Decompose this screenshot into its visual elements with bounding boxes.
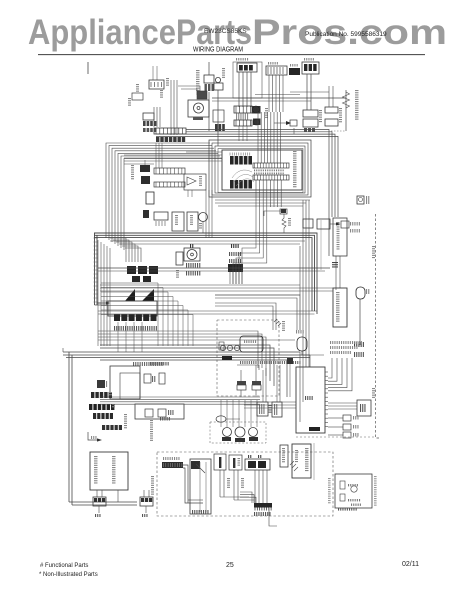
wire pair xyxy=(154,107,160,127)
header strip CN4 xyxy=(253,175,289,180)
relay K2 xyxy=(197,91,207,99)
defrost thermostat S6 xyxy=(140,160,150,172)
wire bus y331 xyxy=(98,331,295,376)
wire arrow into housing xyxy=(98,302,110,305)
connector blob xyxy=(97,380,107,388)
connector row B xyxy=(91,392,112,398)
switch S2 xyxy=(132,93,143,100)
wire elbows right mid xyxy=(215,295,300,330)
wire: top bus b xyxy=(212,100,311,102)
wire elbows in icemaker xyxy=(237,365,259,381)
ice dispenser box xyxy=(292,444,311,478)
wire staircase lower xyxy=(101,283,193,346)
switch S1 xyxy=(149,80,164,89)
wire bundle below flag xyxy=(188,190,212,238)
node: stub comp xyxy=(287,358,293,397)
wire: mid bus right drop xyxy=(300,200,321,402)
wire staircase center down xyxy=(233,207,267,284)
ground arrow xyxy=(88,432,102,442)
svg-text:WIRING DIAGRAM: WIRING DIAGRAM xyxy=(193,47,243,54)
wire bus y345 xyxy=(63,345,310,422)
wire rows into board xyxy=(124,155,186,164)
connector row C xyxy=(89,404,115,410)
wire: top bus a xyxy=(212,97,346,99)
boundary: dash vline xyxy=(313,443,315,480)
node: title WIRING DIAGRAM xyxy=(193,47,243,54)
wire bundle: upper bus xyxy=(156,130,338,257)
svg-text:02/11: 02/11 xyxy=(402,561,419,568)
connector housing xyxy=(108,301,157,316)
flag component K6 xyxy=(184,174,206,190)
wire ladder left xyxy=(94,233,109,305)
wire drops to motors xyxy=(221,400,257,427)
switch S4 door xyxy=(332,218,347,268)
node: date 02/11 xyxy=(402,561,419,568)
arc traces xyxy=(232,170,254,186)
node: model number text xyxy=(204,28,247,35)
header strip CN3 xyxy=(253,163,289,168)
inline connector J8 xyxy=(257,368,268,416)
wire wrap bottom extension xyxy=(215,200,310,206)
ice motor housing xyxy=(240,336,263,352)
node: page number 25 xyxy=(226,562,234,569)
wire elbow up xyxy=(264,209,286,216)
node marks xyxy=(176,270,179,278)
boundary: dashed housing circles xyxy=(210,422,266,443)
wire bundle into board left xyxy=(186,152,222,161)
node: disp labels top xyxy=(330,341,362,354)
pin row 2 xyxy=(114,322,157,352)
connector stub 3 xyxy=(328,432,359,438)
sensor RT2 capsule xyxy=(356,287,369,299)
lamp L1 xyxy=(172,212,184,231)
relay K3 xyxy=(213,110,225,131)
connector row E xyxy=(102,425,122,430)
wire bus y355 dark xyxy=(150,356,301,366)
node: publication number text xyxy=(305,31,387,38)
pin hatches xyxy=(254,170,284,175)
sensor capsule C3 xyxy=(296,330,324,355)
node: water label xyxy=(274,319,285,331)
motor M4 xyxy=(222,428,232,442)
housing B xyxy=(135,404,184,419)
wire drop from J6 xyxy=(230,272,242,284)
svg-text:Appliance: Appliance xyxy=(28,13,176,52)
wire verticals lower left xyxy=(98,240,110,346)
wire elbow bottom xyxy=(220,497,254,500)
ice switch symbols xyxy=(219,342,240,351)
wire wrap around board xyxy=(209,140,311,197)
wire bundle: nested elbows left xyxy=(106,143,222,250)
wire bundle from J1 xyxy=(239,72,251,107)
wire: stub at left xyxy=(87,62,89,74)
switch S5 door xyxy=(333,288,347,327)
valve V1 xyxy=(237,381,246,397)
boundary: ice water dashed box xyxy=(157,452,333,516)
terminal strip TB1 xyxy=(154,128,186,142)
connector stub 2 xyxy=(328,424,359,430)
pin row dark xyxy=(114,314,157,321)
wire elbow down xyxy=(183,465,203,503)
wire bus y268 xyxy=(98,268,330,271)
node: label 486 xyxy=(231,244,239,248)
connector J5 xyxy=(154,212,168,226)
wire bundle into CN3 xyxy=(258,112,280,163)
water valve housing xyxy=(90,452,128,490)
connector row D xyxy=(93,413,113,419)
motor M3 xyxy=(184,248,200,261)
svg-text:EW23CS85KS: EW23CS85KS xyxy=(204,28,247,35)
switch box B xyxy=(229,455,242,470)
wire elbows to relay xyxy=(178,86,200,95)
node: run arrow xyxy=(265,108,297,134)
thermostat S3 xyxy=(143,192,154,218)
connector P2 dark xyxy=(132,276,151,282)
fuse F2 xyxy=(214,68,225,146)
terminal strip TB2 xyxy=(234,106,252,126)
thermistor RT1 xyxy=(280,209,291,233)
relay K4 xyxy=(303,110,322,132)
wire drop J2 xyxy=(269,75,283,112)
boundary: door dashed xyxy=(376,214,382,438)
node: footer non-illustrated parts xyxy=(39,572,98,578)
node tick columns xyxy=(124,414,153,441)
wire bus y285 xyxy=(100,285,333,291)
svg-text:Publication No. 5995586319: Publication No. 5995586319 xyxy=(305,31,387,38)
solenoid B xyxy=(140,490,153,517)
fuse F1 xyxy=(196,62,214,131)
wire pair from J4 xyxy=(307,74,311,110)
wire feed comb xyxy=(240,492,256,503)
wire pair strip drop xyxy=(156,143,162,168)
node: defrost labels xyxy=(131,165,134,179)
node: section label xyxy=(151,476,154,495)
wire pair drop xyxy=(336,256,340,290)
wire tail xyxy=(269,508,277,526)
motor M6 xyxy=(249,428,259,442)
wire bundle below CN4 xyxy=(256,180,281,207)
compressor housing xyxy=(335,474,372,508)
wire bus left drop xyxy=(63,348,72,505)
boundary: icemaker dashed box xyxy=(217,320,279,396)
pump ellipse xyxy=(160,416,240,422)
connector J3 dark xyxy=(289,64,300,75)
wire from RT2 xyxy=(359,299,361,345)
wire: top bus c xyxy=(255,94,300,96)
compressor internals xyxy=(338,481,361,511)
connector J2 xyxy=(266,62,287,75)
arrow contacts xyxy=(125,289,154,301)
overload protector OL1 xyxy=(252,106,261,114)
connector J7 xyxy=(303,219,360,233)
dispenser board U2 xyxy=(296,367,328,433)
wire TB2 to board xyxy=(239,126,247,141)
connector stub 1 xyxy=(328,415,359,421)
wire bus into board xyxy=(244,402,296,408)
connector pair A xyxy=(144,373,165,384)
wire risers above S1 xyxy=(153,66,157,80)
node marks right xyxy=(354,342,364,357)
wire: title rule xyxy=(38,54,425,56)
heater bar H1 xyxy=(162,457,183,468)
connector row CN1 dark xyxy=(230,153,252,165)
boundary dash bottom xyxy=(296,436,374,438)
comb connector dark xyxy=(254,503,272,516)
terminal strip TB3 xyxy=(154,168,185,187)
wire bundle riser xyxy=(166,78,177,135)
wire bus y311 xyxy=(98,311,317,314)
connector J6 xyxy=(228,252,243,272)
main control board U1 xyxy=(222,150,302,190)
resistor R1 xyxy=(331,90,359,131)
node: board label xyxy=(293,151,297,187)
wire bottom elbow xyxy=(69,502,137,505)
valve V2 xyxy=(252,381,261,397)
damper housing xyxy=(110,366,140,399)
ice container box xyxy=(190,459,211,514)
node: caption right xyxy=(374,476,377,506)
wire bus: main mid xyxy=(94,233,317,314)
pin rows under M3 xyxy=(186,263,200,276)
capacitor C1 xyxy=(253,119,261,126)
node: footer functional parts xyxy=(40,563,88,569)
connector J1 xyxy=(233,58,262,98)
wire bundle top into U2 xyxy=(328,358,352,391)
wire drops switches xyxy=(220,470,244,500)
wire pair to K5 xyxy=(290,86,333,107)
node: dotted strip xyxy=(133,362,163,366)
motor M2 xyxy=(199,213,208,234)
connector P1 dark xyxy=(127,266,158,274)
solenoid A xyxy=(93,490,106,517)
wire from housing xyxy=(117,490,119,502)
defrost heater H2 xyxy=(141,176,150,184)
wire drops J10 xyxy=(255,470,267,503)
svg-text:* Non-Illustrated Parts: * Non-Illustrated Parts xyxy=(39,572,98,578)
node: M label xyxy=(190,244,193,248)
connector J10 xyxy=(245,455,270,470)
node labels left cluster xyxy=(128,84,163,106)
switch box A xyxy=(214,454,226,470)
fuse F3 xyxy=(328,400,371,416)
lamp L3 xyxy=(357,196,369,204)
motor M1 xyxy=(188,100,209,120)
node: door label xyxy=(372,246,375,398)
node: watermark AppliancePartsPros.com xyxy=(28,13,447,52)
auger motor xyxy=(280,445,298,471)
motor M5 xyxy=(235,427,245,442)
lamp L2 xyxy=(187,212,198,231)
svg-text:# Functional Parts: # Functional Parts xyxy=(40,563,88,569)
svg-text:25: 25 xyxy=(226,562,234,569)
wire staircase into connectors xyxy=(110,238,141,262)
capacitor C2 xyxy=(176,252,183,265)
inline connector J9 xyxy=(269,365,283,417)
relay K1 xyxy=(143,113,156,132)
connector row CN2 dark xyxy=(230,180,252,189)
connector J4 xyxy=(302,58,319,74)
node: caption left xyxy=(328,478,331,503)
wire bus y397 xyxy=(100,397,260,404)
relay K5 xyxy=(325,107,342,126)
